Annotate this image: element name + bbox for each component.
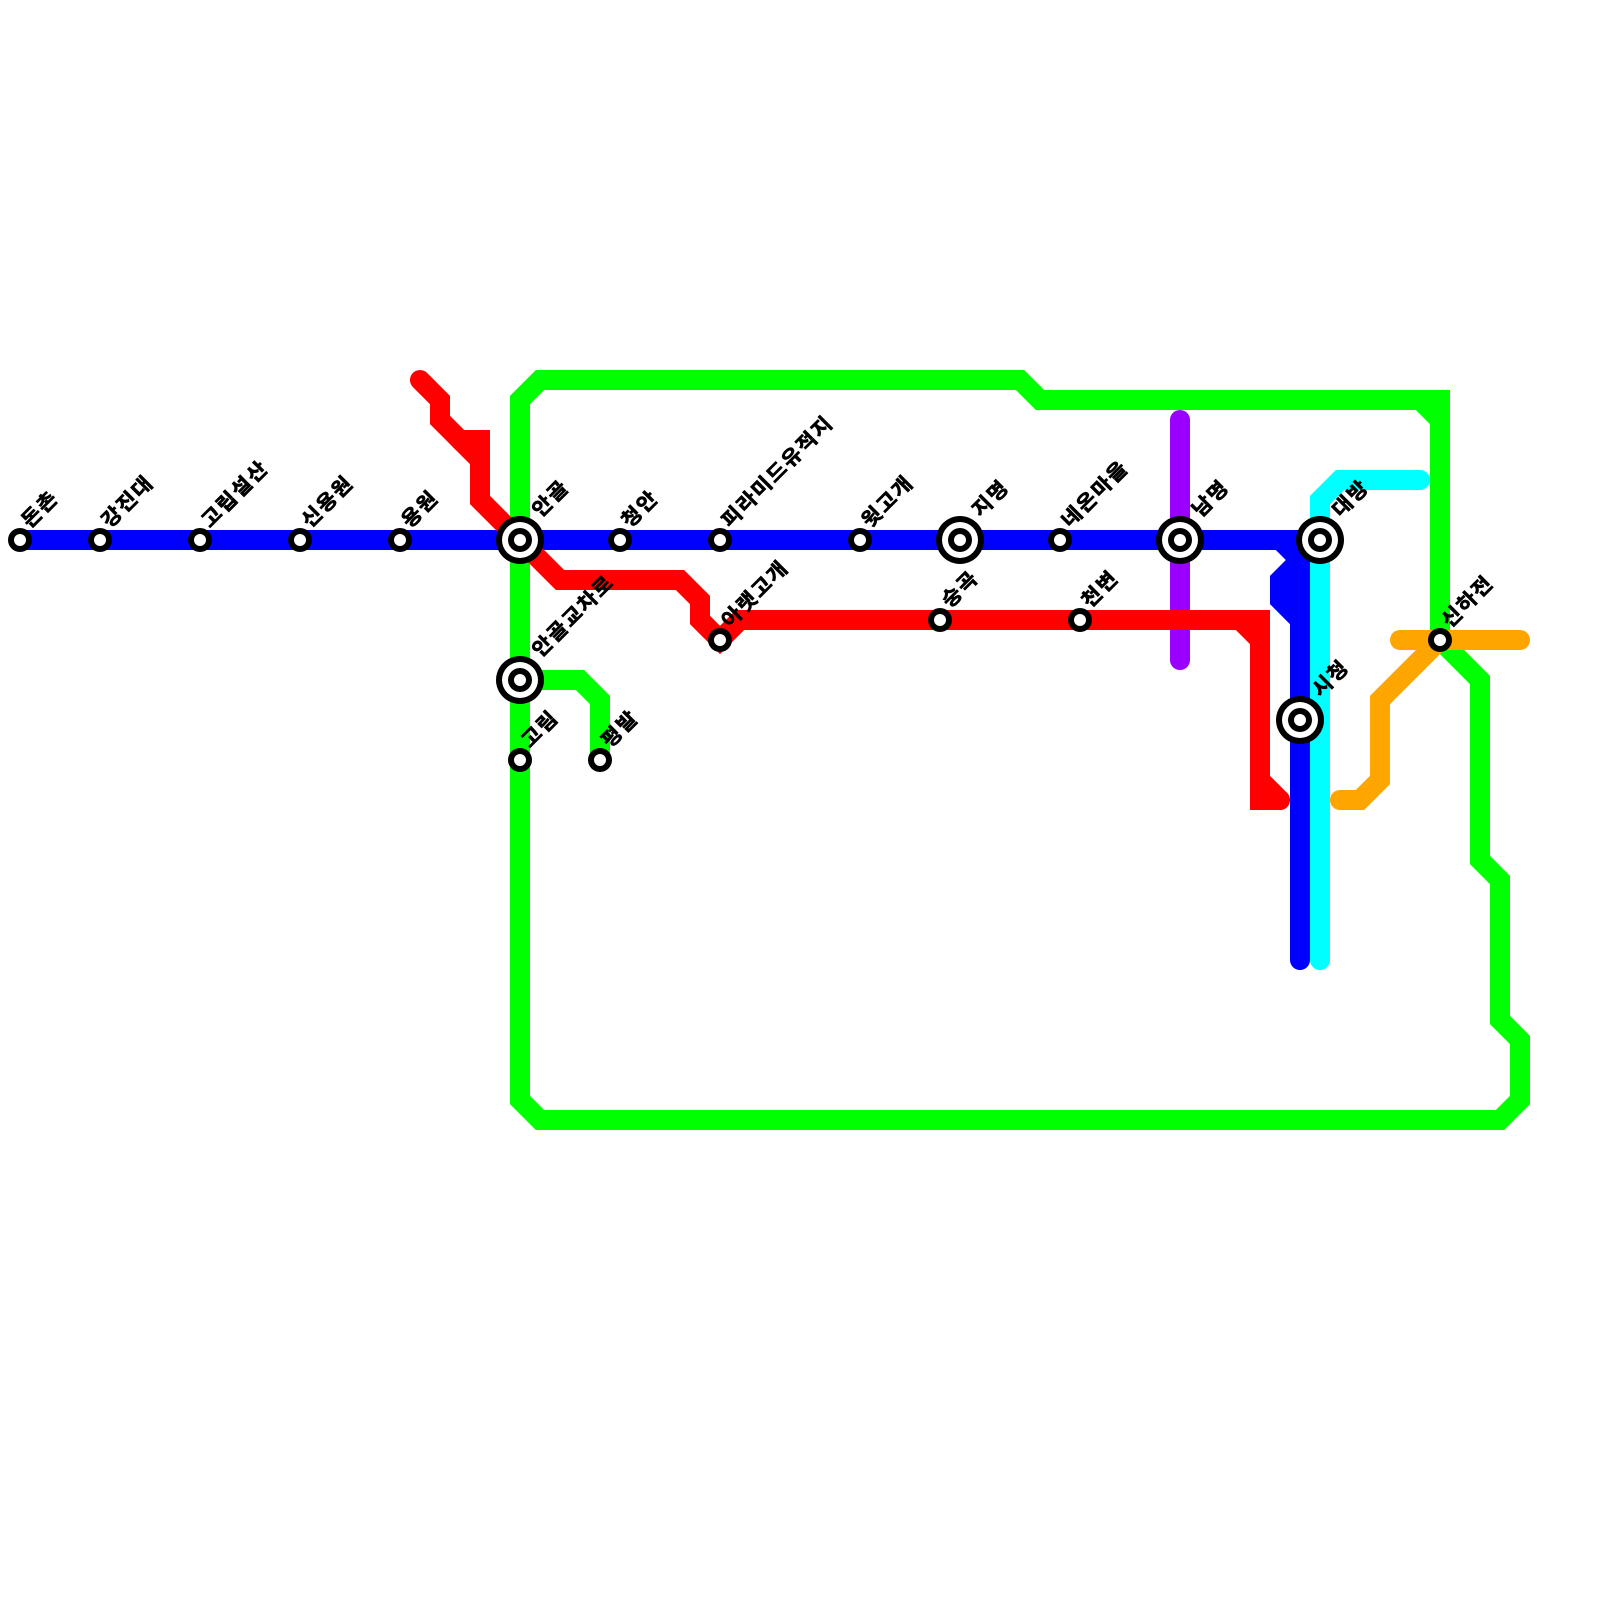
label 신용원	[299, 474, 354, 529]
label 네온마을	[1059, 459, 1129, 529]
station 평발	[588, 748, 612, 772]
label 안골교차로	[529, 573, 614, 658]
station 윗고개	[848, 528, 872, 552]
purple line	[1170, 420, 1190, 660]
label 안골	[529, 478, 569, 518]
cyan line	[1320, 480, 1420, 960]
orange line segment through 신하전	[1400, 630, 1520, 650]
station 청안	[608, 528, 632, 552]
red line	[420, 380, 1280, 800]
label 피라미드유적지	[719, 415, 833, 529]
label 숭곡	[939, 569, 979, 609]
label 남명	[1190, 479, 1229, 518]
blue line branch B to 시청	[1280, 540, 1300, 960]
station 지명	[936, 516, 984, 564]
label 강진대	[99, 474, 154, 529]
label 천변	[1079, 570, 1119, 610]
station 아랫고개	[708, 628, 732, 652]
station 숭곡	[928, 608, 952, 632]
label 돈촌	[19, 489, 59, 529]
station 남명	[1156, 516, 1204, 564]
label 평발	[599, 709, 640, 750]
red line corner bevel at x1260	[1240, 620, 1260, 640]
station 안골교차로	[496, 656, 544, 704]
station 돈촌	[8, 528, 32, 552]
blue line branch A to 시청	[1280, 560, 1300, 620]
label 윗고개	[859, 475, 914, 530]
station 신용원	[288, 528, 312, 552]
blue line main	[20, 530, 1320, 550]
station 강진대	[88, 528, 112, 552]
station 신하전	[1428, 628, 1452, 652]
station 피라미드유적지	[708, 528, 732, 552]
station 천변	[1068, 608, 1092, 632]
label 청안	[619, 489, 660, 530]
station 대방	[1296, 516, 1344, 564]
label 대방	[1330, 478, 1370, 518]
orange line from southwest	[1340, 640, 1440, 800]
label 고림	[519, 710, 558, 749]
station 네온마을	[1048, 528, 1072, 552]
station 안골	[496, 516, 544, 564]
green line corner bevel at top right	[1420, 400, 1440, 420]
label 신하전	[1439, 575, 1494, 630]
station 고림	[508, 748, 532, 772]
label 고립설산	[199, 459, 269, 529]
red line end diagonal	[1260, 780, 1280, 800]
green line loop	[520, 380, 1520, 1120]
label 용원	[399, 489, 439, 529]
label 지명	[969, 479, 1009, 519]
label 시청	[1309, 659, 1349, 699]
station 시청	[1276, 696, 1324, 744]
station 고립설산	[188, 528, 212, 552]
red line corner bevel at x480	[460, 440, 480, 460]
green line branch to 평발	[520, 680, 600, 760]
label 아랫고개	[719, 560, 789, 630]
station 용원	[388, 528, 412, 552]
